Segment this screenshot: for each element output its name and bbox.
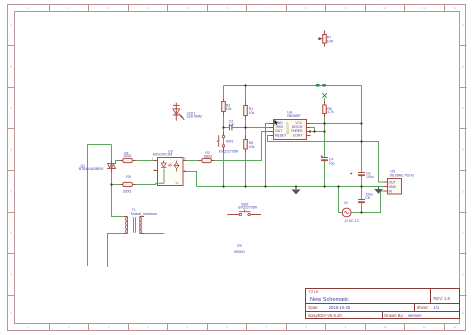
svg-text:D: D [10, 148, 12, 152]
wire ground rail [197, 186, 384, 188]
svg-text:G: G [462, 273, 464, 277]
wire MOC pin4 to rail [187, 172, 197, 187]
ground symbol near U5 [374, 187, 383, 194]
svg-text:C8: C8 [365, 196, 369, 200]
svg-text:TITLE:: TITLE: [308, 290, 319, 294]
svg-text:560Ω: 560Ω [204, 154, 213, 158]
svg-text:10: 10 [384, 325, 387, 329]
svg-text:CONT: CONT [293, 133, 303, 137]
wire top VCC rail [224, 85, 362, 87]
resistor R3 [222, 99, 232, 116]
wire column R8 C4 [324, 98, 326, 187]
svg-text:REV: 1.0: REV: 1.0 [433, 296, 450, 301]
svg-text:wemon: wemon [408, 313, 422, 318]
svg-text:C: C [10, 106, 12, 110]
svg-text:OUT: OUT [389, 181, 396, 185]
wire DISCH tie [310, 128, 315, 132]
resistor R1 [244, 102, 255, 120]
svg-text:12: 12 [454, 6, 457, 10]
svg-text:E: E [462, 190, 464, 194]
voltage source V2 [342, 201, 359, 223]
svg-text:Mutual_Inductors: Mutual_Inductors [131, 212, 157, 216]
svg-text:E: E [10, 190, 12, 194]
capacitor C3 [229, 120, 235, 131]
resistor R2 [199, 151, 215, 163]
wire Q1 left loop [88, 145, 112, 267]
wire 555 GND pin to ground rail [266, 124, 270, 187]
svg-text:10p: 10p [329, 161, 335, 165]
svg-text:10k: 10k [249, 111, 255, 115]
wire 555 VCC row [310, 123, 362, 125]
regulator U5 [384, 170, 415, 194]
svg-text:78L05ML-T92-B: 78L05ML-T92-B [389, 173, 414, 177]
svg-text:NE555P: NE555P [286, 122, 290, 134]
svg-text:NE555P: NE555P [287, 114, 301, 118]
mouse cursor [274, 120, 278, 125]
wire Q1 column [112, 145, 125, 217]
resistor R4 [120, 152, 136, 163]
svg-text:H: H [462, 311, 464, 315]
svg-text:330Ω: 330Ω [123, 190, 132, 194]
capacitor C4 [321, 155, 335, 165]
svg-text:A: A [10, 23, 12, 27]
svg-text:B: B [462, 65, 464, 69]
svg-text:EVQ22705R: EVQ22705R [219, 149, 239, 153]
svg-text:500KΩ: 500KΩ [234, 250, 245, 254]
svg-text:1C: 1C [175, 181, 178, 185]
transformer T1 [124, 208, 157, 234]
svg-text:D: D [462, 148, 464, 152]
wire T1 bottom left [108, 234, 125, 268]
svg-text:New Schematic: New Schematic [310, 297, 349, 303]
resistor R8 [323, 101, 334, 118]
junction dots [110, 84, 362, 213]
switch SW2 horizontal [227, 202, 261, 215]
svg-text:12: 12 [454, 325, 457, 329]
wire 555 RESET to U5 OUT [268, 136, 384, 183]
svg-text:BTB16-600BRG: BTB16-600BRG [79, 167, 104, 171]
svg-text:100Ω: 100Ω [123, 154, 132, 158]
svg-text:100u: 100u [366, 175, 374, 179]
svg-text:MOC3021M: MOC3021M [153, 152, 172, 156]
transistor Q1 triac [79, 161, 116, 173]
svg-text:R9: R9 [237, 244, 241, 248]
svg-text:10k: 10k [226, 107, 232, 111]
svg-text:G: G [10, 273, 12, 277]
op-amp U4 NE555P box [270, 110, 311, 139]
svg-text:Drawn By:: Drawn By: [384, 313, 403, 318]
svg-text:Sheet:: Sheet: [417, 305, 429, 310]
svg-text:11: 11 [423, 325, 426, 329]
svg-text:2018-10-25: 2018-10-25 [329, 305, 351, 310]
switch SW1 vertical [217, 132, 239, 154]
svg-text:V2: V2 [344, 201, 348, 205]
net flag X on R8 [322, 93, 326, 98]
svg-text:11: 11 [423, 6, 426, 10]
capacitor C8 [358, 193, 373, 203]
svg-text:1/1: 1/1 [433, 305, 439, 310]
svg-text:B: B [10, 65, 12, 69]
ground symbol near 555 [292, 187, 301, 195]
wire THRES row [310, 131, 325, 133]
title block [306, 289, 460, 319]
svg-text:EVQ22705R: EVQ22705R [238, 206, 258, 210]
svg-text:10R: 10R [327, 39, 334, 43]
svg-text:EasyEDA V5.9.20: EasyEDA V5.9.20 [308, 313, 342, 318]
svg-text:C: C [462, 106, 464, 110]
net name marks on rail [316, 84, 326, 87]
wire R4 row [116, 161, 154, 164]
wire column R1 R6 [245, 86, 247, 187]
svg-text:H: H [10, 311, 12, 315]
svg-text:10k: 10k [249, 145, 255, 149]
optocoupler U3 MOC3021M [152, 150, 187, 186]
svg-text:12 AC 1 0: 12 AC 1 0 [344, 219, 359, 223]
wire TRIG row with C3 [224, 127, 270, 129]
wire T1 bottom right [144, 233, 164, 235]
svg-text:1uF: 1uF [229, 123, 235, 127]
wire 555 OUT to R2 [187, 132, 270, 161]
wire column R3 SW1 [223, 86, 225, 187]
svg-text:10: 10 [384, 6, 387, 10]
svg-text:LED-5MM: LED-5MM [187, 115, 202, 119]
capacitor C6 [350, 171, 374, 179]
svg-text:Date:: Date: [308, 305, 318, 310]
svg-text:GND: GND [389, 185, 397, 189]
wire R5 row to MOC LED cathode [112, 183, 159, 184]
floating label R9 500K [234, 244, 245, 254]
wire V2 to rail and U5 IN [339, 187, 384, 213]
svg-text:R5: R5 [126, 175, 130, 179]
svg-text:4.7k: 4.7k [327, 110, 334, 114]
resistor R6 [244, 136, 255, 154]
wire column C6 C8 [361, 86, 363, 213]
resistor R5 [120, 175, 136, 194]
svg-text:RESET: RESET [275, 133, 286, 137]
LED1 [173, 103, 202, 121]
svg-text:SW1: SW1 [226, 140, 233, 144]
resistor R7 floating top [318, 31, 333, 47]
svg-text:A: A [462, 23, 464, 27]
